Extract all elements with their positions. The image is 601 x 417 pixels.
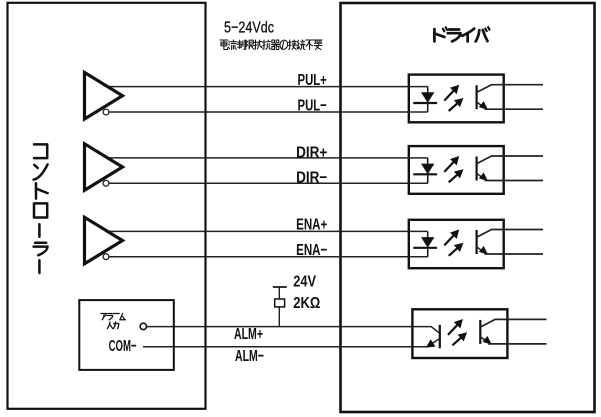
svg-text:DIR+: DIR+ — [296, 144, 327, 161]
svg-text:PUL+: PUL+ — [298, 72, 327, 89]
svg-text:ALM+: ALM+ — [234, 326, 263, 343]
svg-text:COM−: COM− — [109, 338, 137, 355]
svg-text:24V: 24V — [293, 273, 316, 290]
svg-text:ALM−: ALM− — [235, 348, 264, 365]
svg-text:5−24Vdc: 5−24Vdc — [224, 19, 274, 36]
svg-text:2KΩ: 2KΩ — [293, 295, 320, 312]
svg-text:PUL−: PUL− — [298, 97, 327, 114]
svg-text:ENA+: ENA+ — [296, 217, 327, 234]
svg-text:ENA−: ENA− — [296, 242, 327, 259]
svg-text:DIR−: DIR− — [296, 169, 327, 186]
